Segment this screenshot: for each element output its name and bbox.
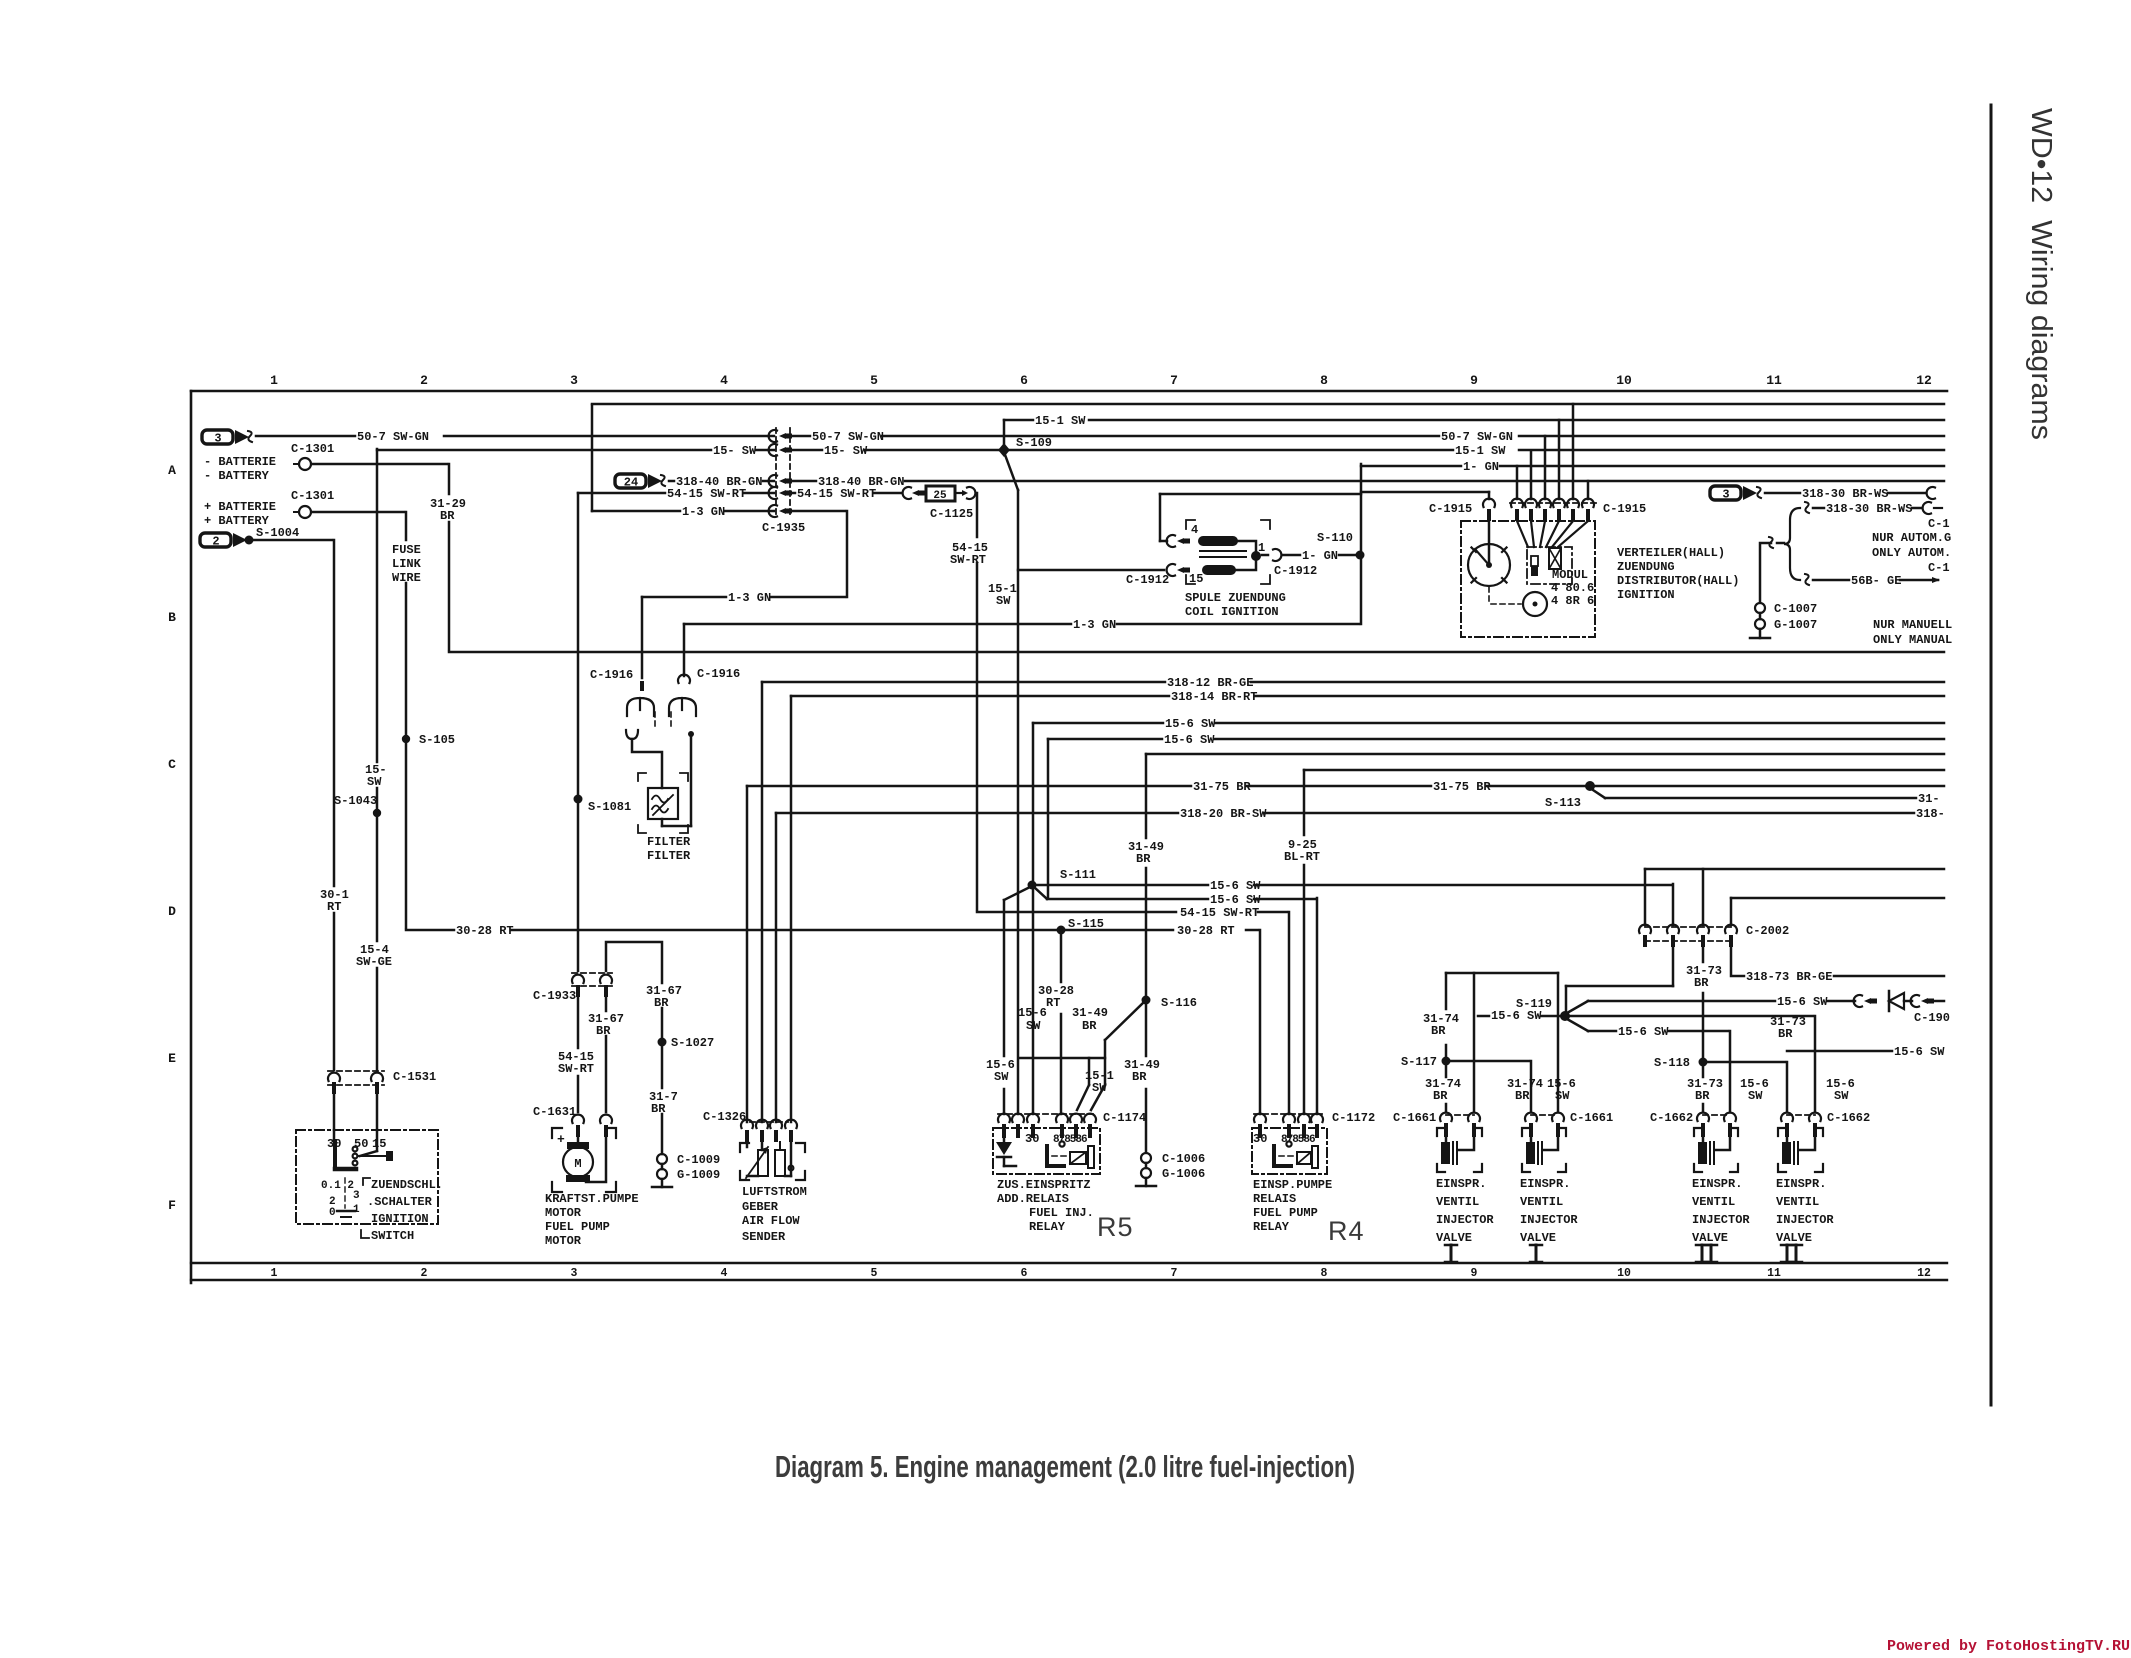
svg-text:S-116: S-116 — [1161, 996, 1197, 1010]
junction S-118 — [1699, 1058, 1708, 1067]
svg-text:12: 12 — [1916, 373, 1932, 388]
svg-text:C: C — [168, 757, 176, 772]
svg-text:R5: R5 — [1097, 1212, 1134, 1242]
svg-text:RELAY: RELAY — [1253, 1220, 1290, 1234]
svg-text:RT: RT — [1046, 996, 1060, 1010]
svg-text:15-6 SW: 15-6 SW — [1165, 717, 1216, 731]
injector valve 4 — [1787, 1114, 1815, 1116]
svg-text:SW: SW — [1026, 1019, 1041, 1033]
svg-text:1-3 GN: 1-3 GN — [682, 505, 725, 519]
svg-text:SW: SW — [994, 1070, 1009, 1084]
svg-text:C-2002: C-2002 — [1746, 924, 1789, 938]
bus 31-49 BR y754 — [1145, 754, 1148, 838]
svg-text:BR: BR — [1433, 1089, 1448, 1103]
R5 coil — [1070, 1152, 1086, 1164]
svg-text:FUEL PUMP: FUEL PUMP — [1253, 1206, 1318, 1220]
svg-text:S-113: S-113 — [1545, 796, 1581, 810]
wire 31-67 link — [606, 942, 662, 983]
svg-text:C-190: C-190 — [1914, 1011, 1950, 1025]
bus y466 1- GN — [1360, 464, 1363, 624]
svg-text:15-6 SW: 15-6 SW — [1491, 1009, 1542, 1023]
svg-text:5: 5 — [871, 1267, 878, 1280]
svg-text:BR: BR — [1515, 1089, 1530, 1103]
svg-text:RELAIS: RELAIS — [1253, 1192, 1296, 1206]
svg-text:S-115: S-115 — [1068, 917, 1104, 931]
S-117 cluster — [1446, 972, 1558, 975]
svg-text:NUR MANUELL: NUR MANUELL — [1873, 618, 1952, 632]
bus y420 15-1 SW — [1004, 419, 1033, 422]
coil pin 4 — [1167, 535, 1175, 547]
svg-text:C-1935: C-1935 — [762, 521, 805, 535]
svg-text:S-1004: S-1004 — [256, 526, 299, 540]
wires to R4 pins — [1259, 930, 1262, 1114]
svg-text:EINSP.PUMPE: EINSP.PUMPE — [1253, 1178, 1332, 1192]
svg-text:C-1007: C-1007 — [1774, 602, 1817, 616]
svg-text:S-105: S-105 — [419, 733, 455, 747]
wire 54-15 down — [577, 799, 580, 971]
arrow 24 feed 318-40 BR-GN — [615, 474, 646, 488]
svg-text:Powered by FotoHostingTV.RU: Powered by FotoHostingTV.RU — [1887, 1638, 2130, 1653]
svg-text:VENTIL: VENTIL — [1776, 1195, 1819, 1209]
coil pin 1 node — [1251, 551, 1261, 561]
svg-text:15-1 SW: 15-1 SW — [1035, 414, 1086, 428]
connector C-1174 — [998, 1113, 1096, 1115]
svg-text:C-1912: C-1912 — [1126, 573, 1169, 587]
rotor — [1488, 521, 1491, 563]
valve1 right pin wire — [1473, 973, 1476, 1112]
R4 lever — [1272, 1146, 1276, 1165]
wire 1-3 GN y597 — [642, 596, 726, 599]
svg-text:C-1: C-1 — [1928, 517, 1950, 531]
junction S-110 — [1356, 551, 1365, 560]
wire 1- GN to S-110 — [1262, 554, 1268, 557]
svg-text:31-75 BR: 31-75 BR — [1193, 780, 1251, 794]
svg-text:1: 1 — [271, 1267, 278, 1280]
svg-text:BR: BR — [651, 1102, 666, 1116]
connector C-1531 — [328, 1070, 384, 1072]
svg-text:MODUL: MODUL — [1552, 568, 1588, 582]
svg-text:318-30 BR-WS: 318-30 BR-WS — [1802, 487, 1888, 501]
svg-text:ZUENDSCHL.: ZUENDSCHL. — [371, 1178, 443, 1192]
svg-text:D: D — [168, 904, 176, 919]
wire to C-1007 — [1769, 537, 1773, 548]
svg-text:SW-RT: SW-RT — [950, 553, 986, 567]
svg-text:SENDER: SENDER — [742, 1230, 786, 1244]
svg-text:F: F — [168, 1198, 176, 1213]
svg-text:- BATTERY: - BATTERY — [204, 469, 270, 483]
svg-text:0: 0 — [329, 1207, 336, 1219]
R4 coil — [1297, 1152, 1311, 1164]
junction S-1027 — [658, 1038, 667, 1047]
relay R5 box — [993, 1128, 1100, 1174]
sidebar rule — [1990, 105, 1993, 1405]
svg-text:VENTIL: VENTIL — [1520, 1195, 1563, 1209]
svg-text:SPULE ZUENDUNG: SPULE ZUENDUNG — [1185, 591, 1286, 605]
coil winding bottom — [1202, 565, 1236, 575]
svg-text:2: 2 — [212, 535, 219, 549]
svg-text:30: 30 — [1025, 1132, 1039, 1146]
svg-text:R4: R4 — [1328, 1216, 1365, 1246]
svg-text:C-1916: C-1916 — [590, 668, 633, 682]
S-119 fan — [1567, 1001, 1588, 1013]
svg-text:SW: SW — [367, 775, 382, 789]
svg-text:1-3 GN: 1-3 GN — [1073, 618, 1116, 632]
svg-text:11: 11 — [1767, 1267, 1781, 1280]
connector C-1125 — [903, 487, 911, 499]
svg-text:BR: BR — [1694, 976, 1709, 990]
svg-text:3: 3 — [571, 1267, 578, 1280]
svg-text:C-1326: C-1326 — [703, 1110, 746, 1124]
bus y898 right — [1730, 898, 1733, 925]
fork left lower hook — [626, 730, 638, 739]
R5 diode — [996, 1142, 1012, 1155]
junction S-113 — [1585, 781, 1595, 791]
svg-text:7: 7 — [1170, 373, 1178, 388]
bus 15-6 SW y739 — [1047, 739, 1050, 897]
junction S-105 — [402, 735, 410, 743]
svg-text:4: 4 — [1191, 523, 1198, 537]
svg-text:E: E — [168, 1051, 176, 1066]
filter box — [648, 788, 678, 819]
svg-text:SW: SW — [1555, 1089, 1570, 1103]
coil winding top — [1198, 536, 1238, 546]
svg-text:SW-RT: SW-RT — [558, 1062, 594, 1076]
bus 318-14 BR-RT — [790, 696, 793, 1122]
svg-text:15- SW: 15- SW — [824, 444, 868, 458]
bus y436 50-7 SW-GN right — [791, 435, 810, 438]
svg-text:G-1007: G-1007 — [1774, 618, 1817, 632]
wire 15-6 SW right lower — [1787, 1050, 1892, 1053]
bus 9-25 BL-RT y770 — [1303, 770, 1306, 835]
svg-text:VALVE: VALVE — [1692, 1231, 1728, 1245]
wire 30-1 RT — [333, 540, 336, 886]
branch 318-30 BR-WS — [1805, 502, 1809, 513]
svg-text:VALVE: VALVE — [1520, 1231, 1556, 1245]
svg-text:S-118: S-118 — [1654, 1056, 1690, 1070]
svg-text:10: 10 — [1616, 373, 1632, 388]
connector C-2002 — [1645, 926, 1731, 928]
connector C-1935 — [775, 428, 777, 516]
svg-text:G-1006: G-1006 — [1162, 1167, 1205, 1181]
svg-text:S-109: S-109 — [1016, 436, 1052, 450]
wire 31-29 BR — [448, 464, 451, 494]
svg-text:NUR AUTOM.G: NUR AUTOM.G — [1872, 531, 1951, 545]
svg-text:BR: BR — [596, 1024, 611, 1038]
pin wires into distributor module — [1517, 521, 1528, 547]
sender resistors — [758, 1150, 768, 1176]
svg-text:4 80.6: 4 80.6 — [1551, 581, 1594, 595]
junction S-115 — [1057, 926, 1066, 935]
svg-text:15-6 SW: 15-6 SW — [1164, 733, 1215, 747]
svg-text:S-1081: S-1081 — [588, 800, 631, 814]
svg-text:54-15 SW-RT: 54-15 SW-RT — [797, 487, 876, 501]
bus 318-12 BR-GE — [761, 682, 764, 1122]
svg-text:54-15 SW-RT: 54-15 SW-RT — [1180, 906, 1259, 920]
svg-text:15-6 SW: 15-6 SW — [1777, 995, 1828, 1009]
svg-text:SW-GE: SW-GE — [356, 955, 392, 969]
svg-text:SW: SW — [1834, 1089, 1849, 1103]
switch lever — [333, 1141, 337, 1167]
svg-text:3: 3 — [1722, 488, 1729, 502]
svg-text:INJECTOR: INJECTOR — [1436, 1213, 1494, 1227]
svg-text:15: 15 — [372, 1137, 386, 1151]
coil wire 15-1 SW — [1018, 569, 1164, 572]
valve4 left feed 31-73 BR — [1786, 1062, 1789, 1112]
air flow sender box — [740, 1143, 749, 1152]
relay R4 box — [1252, 1128, 1327, 1174]
bus 318-20 BR-SW y813 — [775, 813, 778, 1122]
svg-text:LINK: LINK — [392, 557, 422, 571]
svg-text:50-7 SW-GN: 50-7 SW-GN — [357, 430, 429, 444]
svg-text:ZUENDUNG: ZUENDUNG — [1617, 560, 1675, 574]
S-119 left 15-6 SW — [1478, 1015, 1489, 1018]
svg-text:ONLY MANUAL: ONLY MANUAL — [1873, 633, 1952, 647]
svg-text:FILTER: FILTER — [647, 849, 691, 863]
svg-text:3: 3 — [214, 432, 221, 446]
wire 54-15 SW-RT y912 — [977, 911, 1176, 914]
svg-text:15-6: 15-6 — [1018, 1006, 1047, 1020]
svg-text:S-110: S-110 — [1317, 531, 1353, 545]
svg-text:LUFTSTROM: LUFTSTROM — [742, 1185, 807, 1199]
svg-text:MOTOR: MOTOR — [545, 1206, 582, 1220]
coil bracket — [1186, 520, 1195, 529]
svg-text:0.1 2: 0.1 2 — [321, 1180, 354, 1192]
coil pin 15 — [1167, 564, 1175, 576]
svg-text:S-111: S-111 — [1060, 868, 1096, 882]
svg-text:318-20 BR-SW: 318-20 BR-SW — [1180, 807, 1267, 821]
svg-text:C-1661: C-1661 — [1393, 1111, 1436, 1125]
svg-text:24: 24 — [624, 476, 638, 490]
svg-text:BR: BR — [1136, 852, 1151, 866]
svg-text:VENTIL: VENTIL — [1692, 1195, 1735, 1209]
svg-text:C-1912: C-1912 — [1274, 564, 1317, 578]
ignition switch box — [296, 1130, 438, 1224]
svg-text:Diagram 5. Engine management (: Diagram 5. Engine management (2.0 litre … — [775, 1449, 1355, 1484]
svg-text:S-1027: S-1027 — [671, 1036, 714, 1050]
fork left — [627, 698, 654, 716]
svg-text:BR: BR — [1082, 1019, 1097, 1033]
svg-text:AIR FLOW: AIR FLOW — [742, 1214, 800, 1228]
svg-text:C-1301: C-1301 — [291, 489, 334, 503]
fuel pump motor — [552, 1128, 562, 1138]
svg-text:31-49: 31-49 — [1072, 1006, 1108, 1020]
svg-text:WD•12 Wiring diagrams: WD•12 Wiring diagrams — [2025, 108, 2057, 440]
svg-text:+ BATTERIE: + BATTERIE — [204, 500, 276, 514]
svg-text:318-14 BR-RT: 318-14 BR-RT — [1171, 690, 1257, 704]
junction S-109 — [998, 443, 1010, 457]
svg-text:C-1661: C-1661 — [1570, 1111, 1613, 1125]
svg-text:S-117: S-117 — [1401, 1055, 1437, 1069]
svg-text:IGNITION: IGNITION — [371, 1212, 429, 1226]
svg-text:878586: 878586 — [1053, 1134, 1087, 1146]
svg-text:54-15 SW-RT: 54-15 SW-RT — [667, 487, 746, 501]
svg-text:FUEL INJ.: FUEL INJ. — [1029, 1206, 1094, 1220]
svg-text:COIL IGNITION: COIL IGNITION — [1185, 605, 1279, 619]
svg-text:15-6 SW: 15-6 SW — [1894, 1045, 1945, 1059]
svg-text:ONLY AUTOM.: ONLY AUTOM. — [1872, 546, 1951, 560]
wire 318-73 BR-GE — [1731, 947, 1744, 976]
svg-text:6: 6 — [1020, 373, 1028, 388]
svg-text:50: 50 — [354, 1137, 368, 1151]
wire 15-SW S-1043 — [376, 449, 379, 762]
svg-text:EINSPR.: EINSPR. — [1692, 1177, 1742, 1191]
wire 30-28 RT y930 — [406, 929, 454, 932]
svg-text:12: 12 — [1917, 1267, 1931, 1280]
switch contacts — [353, 1147, 358, 1152]
svg-text:INJECTOR: INJECTOR — [1692, 1213, 1750, 1227]
svg-text:15- SW: 15- SW — [713, 444, 757, 458]
bus 15-6 SW y723 — [1032, 723, 1035, 1114]
svg-text:ADD.RELAIS: ADD.RELAIS — [997, 1192, 1069, 1206]
svg-text:C-1301: C-1301 — [291, 442, 334, 456]
branch 56B- GE — [1805, 574, 1809, 585]
svg-text:50-7 SW-GN: 50-7 SW-GN — [812, 430, 884, 444]
svg-text:A: A — [168, 463, 176, 478]
svg-text:FUSE: FUSE — [392, 543, 421, 557]
bus 31-75 BR y786 — [746, 786, 749, 1122]
svg-text:- BATTERIE: - BATTERIE — [204, 455, 276, 469]
svg-text:15-6 SW: 15-6 SW — [1618, 1025, 1669, 1039]
svg-text:31-75 BR: 31-75 BR — [1433, 780, 1491, 794]
svg-text:C-1125: C-1125 — [930, 507, 973, 521]
switch labels — [363, 1178, 370, 1185]
svg-text:G-1009: G-1009 — [677, 1168, 720, 1182]
svg-text:INJECTOR: INJECTOR — [1776, 1213, 1834, 1227]
svg-text:C-1915: C-1915 — [1603, 502, 1646, 516]
svg-text:1- GN: 1- GN — [1302, 549, 1338, 563]
junction S-1081 — [574, 795, 583, 804]
svg-text:RELAY: RELAY — [1029, 1220, 1066, 1234]
svg-text:30: 30 — [1253, 1132, 1267, 1146]
arrow 3 feed 318-30 BR-WS — [1710, 486, 1741, 500]
svg-text:INJECTOR: INJECTOR — [1520, 1213, 1578, 1227]
svg-text:318-12 BR-GE: 318-12 BR-GE — [1167, 676, 1253, 690]
svg-text:C-1916: C-1916 — [697, 667, 740, 681]
svg-text:2: 2 — [420, 373, 428, 388]
bus 15-6 SW y869 — [1645, 868, 1944, 871]
arrow 3 feed 50-7 SW-GN — [202, 430, 233, 444]
svg-text:318-: 318- — [1916, 807, 1945, 821]
wire pin2 to S-119 — [1672, 947, 1675, 986]
svg-text:C-1662: C-1662 — [1827, 1111, 1870, 1125]
svg-text:SW: SW — [1748, 1089, 1763, 1103]
svg-text:4 8R 6: 4 8R 6 — [1551, 594, 1594, 608]
svg-text:8: 8 — [1320, 373, 1328, 388]
wire 1- GN to distributor pin 1 — [1361, 491, 1489, 494]
svg-text:VALVE: VALVE — [1436, 1231, 1472, 1245]
svg-text:15-1 SW: 15-1 SW — [1455, 444, 1506, 458]
fuse link wire — [405, 512, 408, 540]
svg-text:+: + — [557, 1132, 565, 1147]
R5 lever — [1045, 1146, 1049, 1165]
svg-text:318-30 BR-WS: 318-30 BR-WS — [1826, 502, 1912, 516]
svg-text:BR: BR — [1778, 1027, 1793, 1041]
svg-text:4: 4 — [721, 1267, 728, 1280]
svg-text:BR: BR — [440, 509, 455, 523]
wire 31-73 BR pin3 to S-118 — [1702, 947, 1705, 962]
svg-text:5: 5 — [870, 373, 878, 388]
bus y493 54-15 SW-RT — [577, 493, 580, 797]
svg-text:2: 2 — [421, 1267, 428, 1280]
connector C-1172 — [1254, 1113, 1323, 1115]
diode — [1827, 1000, 1855, 1003]
svg-text:1-3 GN: 1-3 GN — [728, 591, 771, 605]
svg-text:6: 6 — [1021, 1267, 1028, 1280]
svg-text:BR: BR — [1132, 1070, 1147, 1084]
svg-text:C-1531: C-1531 — [393, 1070, 436, 1084]
svg-text:GEBER: GEBER — [742, 1200, 779, 1214]
valve3 right feed — [1729, 1031, 1732, 1112]
svg-text:C-1172: C-1172 — [1332, 1111, 1375, 1125]
svg-text:C-1933: C-1933 — [533, 989, 576, 1003]
svg-text:C-1009: C-1009 — [677, 1153, 720, 1167]
frame border — [191, 390, 1947, 393]
svg-text:11: 11 — [1766, 373, 1782, 388]
svg-text:25: 25 — [933, 490, 947, 502]
svg-text:BR: BR — [1431, 1024, 1446, 1038]
svg-text:B: B — [168, 610, 176, 625]
svg-text:C-1174: C-1174 — [1103, 1111, 1146, 1125]
svg-text:KRAFTST.PUMPE: KRAFTST.PUMPE — [545, 1192, 639, 1206]
svg-text:EINSPR.: EINSPR. — [1436, 1177, 1486, 1191]
svg-text:VENTIL: VENTIL — [1436, 1195, 1479, 1209]
valve4 right feed — [1814, 1016, 1817, 1112]
valve2 right pin wire — [1557, 973, 1560, 1112]
wire to C-1916 left — [641, 597, 644, 678]
bus y404 — [591, 405, 594, 511]
svg-text:SWITCH: SWITCH — [371, 1229, 414, 1243]
svg-text:C-1662: C-1662 — [1650, 1111, 1693, 1125]
svg-text:1: 1 — [270, 373, 278, 388]
svg-text:S-1043: S-1043 — [334, 794, 377, 808]
coil core — [1200, 550, 1246, 552]
wire 15-1 SW down from S-109 — [1004, 452, 1018, 490]
svg-text:BR: BR — [1695, 1089, 1710, 1103]
arrow 2 feed S-1004 — [200, 533, 231, 547]
injector valve 1 — [1446, 1114, 1474, 1116]
distributor box — [1461, 521, 1595, 637]
C-1009 / G-1009 — [657, 1154, 667, 1164]
svg-text:10: 10 — [1617, 1267, 1631, 1280]
R5 coil feed rail — [1019, 1057, 1105, 1060]
svg-text:7: 7 — [1171, 1267, 1178, 1280]
svg-text:C-1631: C-1631 — [533, 1105, 576, 1119]
svg-text:SW: SW — [996, 594, 1011, 608]
dashed links fork area — [654, 712, 656, 730]
injector valve 2 — [1531, 1114, 1558, 1116]
module circle — [1523, 592, 1547, 616]
svg-text:VALVE: VALVE — [1776, 1231, 1812, 1245]
svg-text:VERTEILER(HALL): VERTEILER(HALL) — [1617, 546, 1725, 560]
svg-text:FUEL PUMP: FUEL PUMP — [545, 1220, 610, 1234]
switch ground — [337, 1210, 355, 1212]
svg-text:.SCHALTER: .SCHALTER — [367, 1195, 433, 1209]
svg-text:IGNITION: IGNITION — [1617, 588, 1675, 602]
bus 1-3 GN y624 to coil — [683, 624, 686, 676]
fork right — [669, 698, 696, 716]
pin2 corner — [1672, 884, 1675, 925]
junction S-111 — [1028, 881, 1037, 890]
svg-text:318-73 BR-GE: 318-73 BR-GE — [1746, 970, 1832, 984]
svg-text:3: 3 — [570, 373, 578, 388]
ground C-1006 — [1145, 1089, 1148, 1152]
svg-text:ZUS.EINSPRITZ: ZUS.EINSPRITZ — [997, 1178, 1091, 1192]
svg-text:EINSPR.: EINSPR. — [1520, 1177, 1570, 1191]
junction S-116 — [1142, 996, 1151, 1005]
svg-text:31-: 31- — [1918, 792, 1940, 806]
svg-text:9: 9 — [1471, 1267, 1478, 1280]
svg-text:C-1915: C-1915 — [1429, 502, 1472, 516]
